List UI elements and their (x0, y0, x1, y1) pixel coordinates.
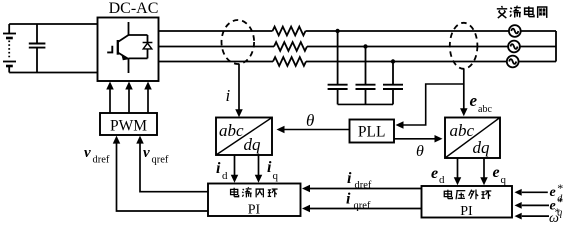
inductor L2 (zigzag) (274, 42, 307, 51)
battery B1 (3, 24, 16, 73)
svg-text:d: d (439, 174, 445, 186)
svg-text:PI: PI (248, 203, 261, 218)
diode D1 (freewheel) (143, 43, 153, 49)
PWM block (100, 113, 157, 135)
node B (phase b tap) (363, 44, 367, 48)
wire: phase b line (159, 46, 275, 48)
wire: capacitor common rail (338, 103, 393, 105)
current sensor CT (dashed ellipse) (222, 20, 255, 64)
svg-text:qref: qref (152, 155, 169, 166)
wire: i_d output (234, 155, 236, 176)
svg-text:e: e (493, 164, 500, 181)
svg-text:v: v (143, 145, 150, 161)
inductor L3 (zigzag) (273, 57, 306, 66)
wire: i_qref reference (309, 208, 422, 210)
svg-text:i: i (267, 159, 272, 176)
capacitor C1 (DC link) (29, 24, 46, 73)
wire: DC bus top (9, 23, 97, 25)
svg-text:dref: dref (93, 155, 110, 166)
node A (phase a tap) (335, 29, 339, 33)
inductor L1 (zigzag) (273, 27, 306, 36)
wire: voltage measurement drop e_abc (463, 69, 465, 110)
wire: e_q output (483, 158, 485, 179)
wire: i_q output (258, 155, 260, 176)
svg-text:q: q (273, 170, 279, 182)
wire: gate signal 1 (109, 88, 111, 113)
wire: omega* input (522, 215, 549, 217)
AC source Gc (507, 56, 519, 68)
wire: phase c line (159, 61, 274, 63)
svg-text:*: * (555, 207, 561, 219)
wire: e_d output (457, 158, 459, 179)
node C (phase c tap) (391, 59, 395, 63)
capacitor Cf3 (383, 62, 403, 105)
capacitor Cf1 (328, 31, 348, 104)
svg-text:i: i (216, 160, 221, 177)
converter block U1 (DC-AC) (98, 18, 159, 82)
wire: grid side stubs and neutral bus (521, 30, 556, 32)
svg-text:e: e (470, 91, 478, 110)
wire: e_abc branch to PLL (402, 84, 464, 125)
svg-text:q: q (501, 174, 507, 186)
svg-text:dref: dref (355, 180, 372, 191)
transform block abc/dq (current) (216, 118, 272, 156)
emitter arrowhead of Q1 (121, 54, 129, 60)
svg-text:qref: qref (354, 201, 371, 212)
transform block abc/dq (voltage) (445, 118, 500, 159)
svg-text:PLL: PLL (358, 124, 386, 141)
wire: phase a line (159, 27, 557, 66)
svg-text:θ: θ (416, 143, 424, 160)
svg-text:PI: PI (460, 204, 473, 219)
svg-text:PWM: PWM (110, 118, 147, 135)
PLL block (350, 120, 395, 143)
current inner-loop PI block (208, 184, 301, 218)
wire: DC bus bottom (9, 72, 97, 74)
svg-text:d: d (222, 170, 228, 182)
svg-text:v: v (84, 145, 91, 161)
wire: current measurement drop (238, 64, 240, 111)
svg-text:abc: abc (478, 104, 492, 115)
capacitor Cf2 (356, 47, 376, 105)
svg-text:θ: θ (306, 111, 314, 130)
svg-text:dq: dq (473, 138, 491, 157)
wire: e_q* input (522, 204, 549, 206)
wire: gate signal 2 (128, 88, 130, 113)
transistor Q1 (IGBT) (107, 22, 147, 73)
svg-text:i: i (346, 191, 351, 208)
svg-text:dq: dq (244, 135, 262, 154)
label AC grid (Chinese) (497, 6, 547, 18)
svg-text:i: i (226, 86, 231, 105)
wire: i_dref reference (309, 188, 422, 190)
wire: v_qref path (PI out upper) (140, 142, 208, 192)
svg-text:abc: abc (219, 121, 244, 140)
wire: v_dref path (PI out lower) (117, 142, 209, 211)
AC source Ga (509, 25, 521, 37)
wire: theta to left abc/dq (284, 129, 350, 131)
wire: e_d* input (522, 191, 548, 193)
wire: gate signal 3 (147, 88, 149, 113)
voltage sensor PT (dashed ellipse) (450, 23, 478, 69)
svg-text:i: i (347, 170, 352, 187)
voltage outer-loop PI block (422, 186, 513, 219)
svg-text:DC-AC: DC-AC (109, 0, 159, 17)
AC source Gb (508, 41, 520, 53)
svg-text:e: e (431, 165, 438, 182)
svg-text:abc: abc (450, 121, 475, 140)
wire: theta to right abc/dq (394, 138, 435, 140)
